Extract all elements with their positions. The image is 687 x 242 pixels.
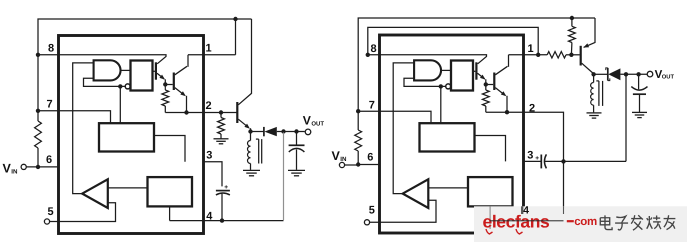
wire: pin 8 loop to pin 1 (right) [368, 27, 538, 54]
wire: pin 4 ground row (right) [490, 220, 563, 222]
node: bubble line junction (right) [439, 84, 443, 88]
terminal: VIN (right) [339, 162, 344, 167]
core lines of L1 [258, 139, 260, 163]
wire: pin 5 to comparator inverting input [50, 203, 116, 222]
transistor Q2 driver (inside IC, right) [475, 62, 477, 79]
wire: pin 5 to comparator (right) [370, 200, 436, 222]
inductor L2 (right) [593, 76, 595, 83]
node: top rail junction feeding pin 1 [233, 17, 237, 21]
svg-text:+: + [535, 155, 539, 162]
wire: pin 1 row (switch collector out) [188, 54, 236, 56]
terminal: VOUT (left) [305, 129, 311, 135]
node: rail dot pin8 row [36, 53, 40, 57]
resistor R-base horizontal [547, 52, 566, 58]
wire: VIN to pin 6 (right) [345, 164, 359, 166]
wire: switch node to diode [251, 131, 264, 133]
node: pin8-pin1 tie dot [536, 53, 540, 57]
wire: comparator output up to AND input [73, 63, 94, 194]
node: Q2 emitter junction (right) [484, 82, 488, 86]
svg-text:1: 1 [527, 43, 533, 55]
node: pin2 external junction [219, 110, 223, 114]
wire: internal block bottom to pin4 [169, 206, 171, 220]
svg-text:3: 3 [206, 150, 212, 162]
svg-text:2: 2 [529, 103, 535, 115]
wire: VIN rail + top supply rail (right) [358, 18, 595, 130]
reference block (left) [148, 177, 193, 206]
transistor Q4 external PNP (right) [580, 46, 582, 66]
IC U2 package box (right) [380, 35, 524, 233]
svg-text:6: 6 [367, 152, 373, 164]
resistor R pull-up vertical [571, 18, 573, 26]
node: pin8 wire corner dot [366, 53, 370, 57]
terminal: VIN (left) [21, 164, 26, 169]
svg-text:OUT: OUT [662, 73, 675, 80]
svg-text:OUT: OUT [311, 121, 324, 128]
node: top rail junction to base resistor [570, 16, 574, 20]
watermark background box [474, 206, 687, 242]
transistor Q2 driver (inside IC, left) [155, 62, 157, 79]
wire: pin2 junction down to gnd row (right) [563, 161, 565, 220]
latch block (left) [131, 61, 153, 91]
svg-text:+: + [224, 184, 228, 191]
svg-text:3: 3 [527, 150, 533, 162]
svg-text:com: com [574, 216, 597, 228]
svg-text:elecfans: elecfans [483, 212, 551, 232]
wire: reference to comparator (right) [428, 187, 468, 189]
resistor R-Ipk on right rail [355, 130, 362, 151]
svg-text:V: V [3, 161, 12, 175]
ground: under output cap [288, 169, 305, 171]
svg-text:7: 7 [46, 99, 52, 111]
svg-text:IN: IN [11, 168, 18, 175]
wire: AND output to latch [121, 69, 131, 71]
wire: gray return line diode-anode to pin4 row [283, 133, 285, 221]
node: rail dot pin7 row [36, 109, 40, 113]
wire: VIN to pin 6 [26, 166, 58, 168]
node: output cap tap [294, 129, 298, 133]
transistor Q3 external NPN (left) [236, 102, 238, 123]
svg-text:6: 6 [46, 154, 52, 166]
wire: AND output to latch (right) [441, 69, 451, 71]
wire: feedback from out to pin3 row [625, 74, 627, 161]
transistor Q1 output (inside IC, left) [173, 73, 175, 91]
node: Q2 emitter junction [163, 82, 167, 86]
wire: oscillator to pin 3 [154, 136, 185, 162]
op-amp comparator (right) [403, 179, 429, 208]
ground: under output cap (right) [632, 111, 647, 113]
node: pin2/pin3 junction (right) [561, 159, 565, 163]
wire: pin 3 row (right) [524, 160, 542, 162]
wire stub: block-to-pin4 over watermark [489, 206, 491, 229]
wire: pin 1 row out to base resistor (right) [509, 54, 548, 56]
wire: oscillator to pin 3 (right) [475, 136, 506, 162]
node: diode anode / gnd return [281, 129, 285, 133]
node: switch node (right) [591, 72, 595, 76]
watermark: Chinese characters dian-zi-fa-shao-you [605, 215, 612, 229]
wire: collector up to top rail [251, 19, 253, 94]
node: rail dot pin7 row (right) [356, 109, 360, 113]
node: rail dot pin6 row / VIN [36, 165, 40, 169]
wire: junction down to oscillator (right) [440, 86, 442, 123]
wire: drop from top rail to pin1 wire [235, 19, 237, 55]
capacitor C-out (left, polarized) [296, 133, 298, 145]
terminal: pin 5 feedback (right) [364, 220, 369, 225]
wire: switch node to diode (right) [594, 73, 608, 75]
latch block (right) [451, 61, 473, 91]
svg-text:IN: IN [340, 156, 347, 163]
node: Q1 emitter to pin 2 junction [184, 110, 188, 114]
resistor R internal emitter (right) [485, 85, 487, 91]
svg-text:2: 2 [205, 100, 211, 112]
diode D1 catch (left) [263, 127, 265, 136]
latch bubble (right) [446, 84, 451, 89]
wire: pin 2 row (switch emitter out) [165, 112, 237, 114]
AND gate (right) [414, 60, 441, 80]
svg-text:8: 8 [370, 43, 376, 55]
wire: Q2 emitter to Q1 base [165, 84, 172, 86]
wire: pin 8 row into IC to driver collector (right) [380, 55, 487, 64]
core lines of L2 [598, 81, 600, 106]
node: switch node at Q3 emitter [248, 129, 252, 133]
resistor R base-emitter external [220, 113, 222, 118]
op-amp comparator (left) [82, 179, 108, 208]
resistor R internal (emitter) [164, 85, 166, 91]
diode D2 Schottky (right) [607, 68, 609, 81]
terminal: VOUT (right) [647, 71, 653, 77]
node: Q1 emitter to pin 2 junction (right) [505, 110, 509, 114]
wire: pin 7 row to oscillator (right) [358, 111, 431, 123]
capacitor CT timing (left, polarized) [216, 190, 230, 192]
wire: AND second input from latch bubble line [84, 78, 126, 86]
node: pin3 feedback tap [624, 72, 628, 76]
wire: pin 4 ground row [170, 220, 284, 222]
inductor L1 (left) [250, 133, 252, 141]
node: rail dot pin6 row (right) [356, 162, 360, 166]
transistor Q1 output (inside IC, right) [493, 73, 495, 91]
wire: comparator output to AND (right) [393, 63, 414, 194]
oscillator block (right) [420, 123, 475, 151]
wire: reference to comparator non-inv input [108, 187, 148, 189]
svg-text:1: 1 [205, 43, 211, 55]
node: output cap tap (right) [636, 72, 640, 76]
node: CT to pin4 row [220, 218, 224, 222]
wire: Q2 emitter to Q1 base (right) [486, 84, 493, 86]
node: bubble line junction [118, 84, 122, 88]
wire stub: IC right edge over watermark [521, 206, 523, 214]
AND gate (left) [94, 60, 121, 80]
wire: pin 7 row to oscillator [38, 111, 111, 123]
resistor R-Ipk on left rail [35, 121, 42, 148]
ground: under inductor (right) [587, 112, 602, 114]
capacitor C-out (right, polarized) [638, 76, 640, 89]
reference block (right) [468, 177, 513, 206]
terminal: pin 5 feedback input [44, 219, 49, 224]
node: base resistor / pull-up junction [569, 53, 573, 57]
svg-text:V: V [332, 149, 341, 163]
svg-text:5: 5 [369, 205, 375, 217]
ground: under inductor [243, 169, 260, 171]
wire: VIN rail + top supply rail (left) [38, 19, 252, 121]
latch bubble (inverting input) [125, 84, 130, 89]
capacitor C3 (right, series polarized) [540, 155, 542, 169]
wire stub: pin2 vertical over watermark [563, 206, 565, 214]
IC U1 package box (left) [59, 36, 204, 234]
wire: block bottom to pin4 (right) [489, 206, 491, 220]
svg-text:8: 8 [48, 43, 54, 55]
wire: pin 2 row out and down (right) [486, 112, 564, 161]
wire: AND second input (right) [404, 78, 446, 86]
ground: under pin2 resistor [214, 138, 229, 140]
wire: pin 8 row into IC to driver collector [38, 55, 166, 64]
svg-text:5: 5 [47, 206, 53, 218]
svg-text:4: 4 [206, 210, 213, 222]
wire: pin 3 row to timing cap [204, 162, 223, 187]
oscillator block (left) [99, 123, 154, 151]
wire: junction down to oscillator block [119, 86, 121, 123]
svg-text:7: 7 [369, 100, 375, 112]
